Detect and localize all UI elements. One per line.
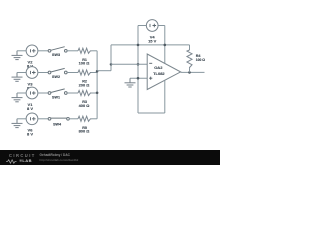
resistor R3 400 Ω xyxy=(78,90,91,95)
switch SW3 xyxy=(48,47,67,52)
wire SW1 to R3 xyxy=(67,92,78,94)
voltage source V4 15 V xyxy=(146,20,158,32)
wire V4 plus stub xyxy=(158,25,165,27)
switch SW1 xyxy=(48,89,67,94)
junction V4-/top rail xyxy=(137,44,140,47)
junction bus/R3 xyxy=(96,92,99,95)
wire V2 to SW3 xyxy=(38,50,50,52)
switch SW4 xyxy=(48,117,69,120)
wire bottom supply loop xyxy=(138,112,165,114)
wire tap up to top rail xyxy=(110,45,112,64)
ground G1 xyxy=(12,51,23,60)
wire V4 minus leg down xyxy=(137,26,139,114)
wire ground to non-inverting input xyxy=(130,77,147,79)
wire V4 plus leg / V+ pin xyxy=(164,26,166,64)
svg-text:TL082: TL082 xyxy=(153,71,165,76)
wire tap horizontal xyxy=(97,70,111,72)
ground G4 xyxy=(12,119,23,128)
ground G3 xyxy=(12,93,23,102)
resistor R5 800 Ω xyxy=(78,116,91,121)
junction tap/-input xyxy=(110,63,113,66)
ground G2 xyxy=(12,73,23,82)
wire R1 to bus xyxy=(92,50,98,52)
svg-text:SW2: SW2 xyxy=(52,75,60,79)
svg-text:100 Ω: 100 Ω xyxy=(79,61,90,66)
junction V4+/top rail xyxy=(164,44,167,47)
wire ground to V1 xyxy=(17,92,26,94)
wire ground to V6 xyxy=(17,118,26,120)
wire ground to V2 xyxy=(17,50,26,52)
resistor R4 100 Ω (feedback) xyxy=(187,50,192,69)
svg-text:100 Ω: 100 Ω xyxy=(196,58,206,62)
svg-text:15 V: 15 V xyxy=(148,38,157,43)
wire SW2 to R2 xyxy=(67,72,78,74)
svg-text:400 Ω: 400 Ω xyxy=(79,103,90,108)
svg-text:800 Ω: 800 Ω xyxy=(79,129,90,134)
junction output/R4 xyxy=(188,71,191,74)
resistor R2 200 Ω xyxy=(78,70,91,75)
voltage source V1 8 V xyxy=(26,87,38,99)
wire V4 minus stub xyxy=(138,25,146,27)
wire rail to R4 xyxy=(189,45,191,50)
wire R2 to bus xyxy=(92,72,98,74)
svg-text:SW4: SW4 xyxy=(53,122,62,126)
wire ground to V3 xyxy=(17,72,26,74)
ground opamp xyxy=(125,78,136,87)
svg-text:SW1: SW1 xyxy=(52,95,60,99)
wire R4 to output xyxy=(189,69,191,73)
op-amp OA2 TL082 xyxy=(147,54,180,90)
wire SW4 to R5 xyxy=(69,118,78,120)
resistor R1 100 Ω xyxy=(78,48,91,53)
wire top rail xyxy=(111,44,190,46)
wire to inverting input xyxy=(111,63,147,65)
wire output xyxy=(181,71,205,73)
wire V6 to SW4 xyxy=(38,118,50,120)
voltage source V6 8 V xyxy=(26,113,38,125)
svg-text:SW3: SW3 xyxy=(52,53,60,57)
svg-text:200 Ω: 200 Ω xyxy=(79,82,90,87)
wire V- pin down xyxy=(164,80,166,113)
wire SW3 to R1 xyxy=(67,50,78,52)
junction V4-/+input line xyxy=(137,77,140,80)
svg-text:OA2: OA2 xyxy=(154,65,163,70)
wire R5 to bus xyxy=(92,118,98,120)
svg-text:8 V: 8 V xyxy=(27,106,33,111)
voltage source V2 8 V xyxy=(26,45,38,57)
wire tap vertical xyxy=(110,64,112,70)
wire V1 to SW1 xyxy=(38,92,50,94)
wire R3 to bus xyxy=(92,92,98,94)
junction V4-/-input line xyxy=(137,63,140,66)
wire V3 to SW2 xyxy=(38,72,50,74)
svg-text:8 V: 8 V xyxy=(27,132,33,137)
junction bus/tap/R2 xyxy=(96,70,99,73)
switch SW2 xyxy=(48,68,67,73)
wire summing bus xyxy=(96,51,98,119)
voltage source V3 8 V xyxy=(26,67,38,79)
